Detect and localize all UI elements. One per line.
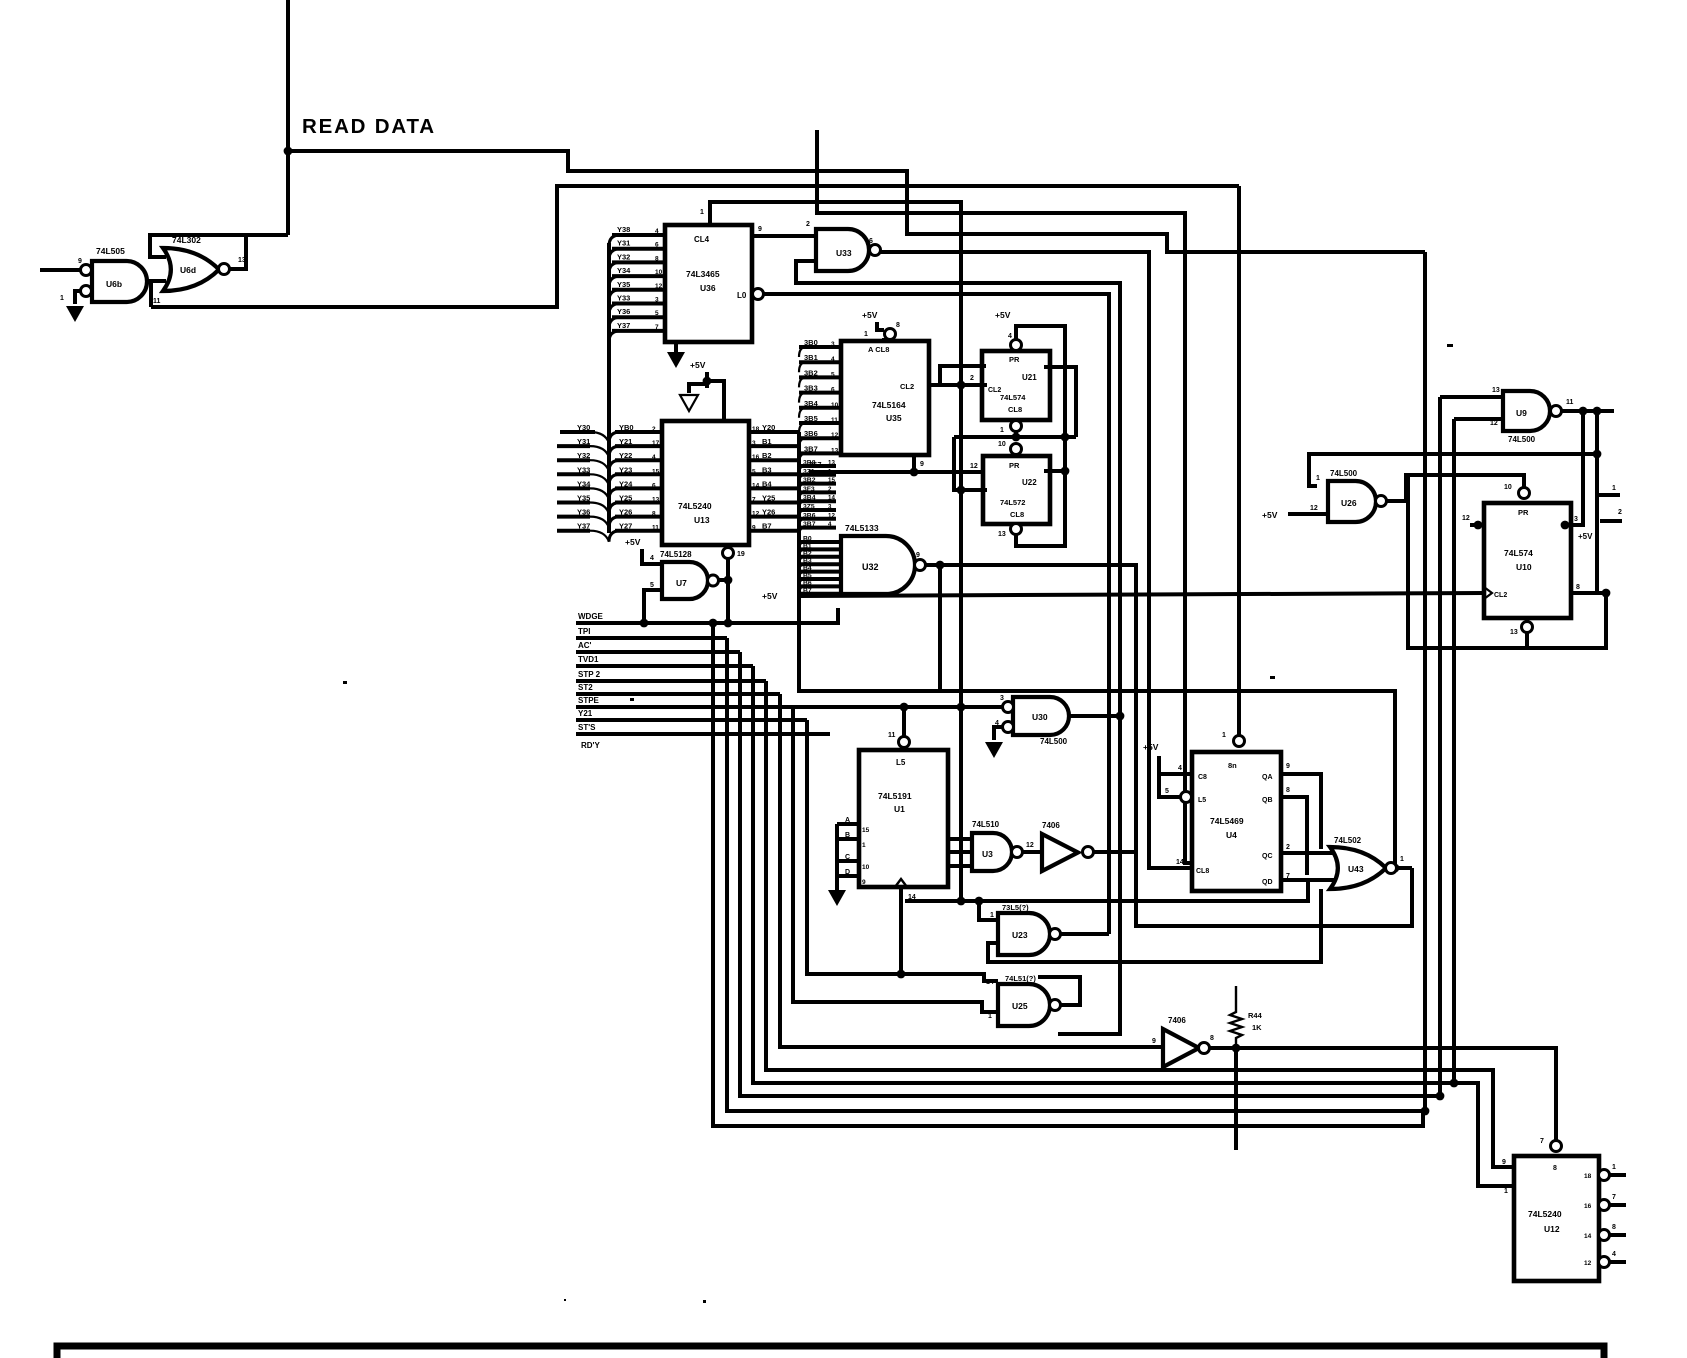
svg-text:18: 18 — [752, 426, 760, 433]
power +5V left of U4 — [1143, 742, 1159, 752]
svg-text:Y21: Y21 — [619, 437, 632, 446]
svg-text:3B6: 3B6 — [804, 429, 818, 438]
label U4 part — [1210, 816, 1244, 840]
open triangle symbol — [680, 384, 707, 411]
svg-text:+5V: +5V — [625, 537, 641, 547]
wire ST'S line — [576, 732, 830, 736]
svg-text:U35: U35 — [886, 413, 902, 423]
svg-text:1: 1 — [990, 912, 994, 919]
svg-text:CL2: CL2 — [988, 387, 1001, 394]
svg-text:B7: B7 — [762, 522, 772, 531]
svg-text:TPI: TPI — [578, 627, 590, 636]
label U36 part number — [686, 269, 720, 293]
wire U3 to 7406 — [1022, 842, 1042, 852]
svg-text:8: 8 — [655, 255, 659, 262]
svg-text:14: 14 — [752, 482, 760, 489]
svg-text:Y26: Y26 — [619, 508, 632, 517]
wire U25 top input stub — [984, 979, 998, 983]
svg-text:13: 13 — [238, 257, 246, 264]
label U35 CL2 pin — [900, 382, 914, 391]
svg-text:1: 1 — [1612, 485, 1616, 492]
svg-text:9: 9 — [752, 525, 756, 532]
svg-text:1: 1 — [60, 295, 64, 302]
wire U36 pin1 to long vertical — [700, 202, 961, 901]
svg-text:7: 7 — [1540, 1138, 1544, 1145]
svg-text:AC': AC' — [578, 641, 592, 650]
svg-text:12: 12 — [1462, 515, 1470, 522]
ic U36 ground pin — [667, 342, 685, 368]
label 74LS132 upper — [1002, 903, 1029, 912]
node READ DATA label — [302, 115, 436, 138]
svg-text:16: 16 — [752, 454, 760, 461]
svg-text:9: 9 — [1152, 1038, 1156, 1045]
svg-text:Y24: Y24 — [619, 479, 633, 488]
svg-text:CL4: CL4 — [694, 235, 710, 244]
svg-text:4: 4 — [828, 521, 832, 528]
label U12 left pins — [1502, 1159, 1508, 1195]
wire U23 output to vertical — [1060, 932, 1109, 936]
svg-text:8: 8 — [1210, 1035, 1214, 1042]
svg-text:1K: 1K — [1252, 1023, 1262, 1032]
svg-text:74L5128: 74L5128 — [660, 550, 692, 559]
wire U30 lower input to ground — [985, 727, 1003, 758]
svg-text:74L502: 74L502 — [1334, 836, 1362, 845]
svg-text:10: 10 — [998, 441, 1006, 448]
svg-text:73L5(?): 73L5(?) — [1002, 903, 1029, 912]
svg-text:5: 5 — [650, 582, 654, 589]
svg-text:Y32: Y32 — [617, 252, 630, 261]
wire U1 outputs to U3 — [948, 839, 972, 866]
svg-text:7406: 7406 — [1042, 821, 1060, 830]
wire output down to Q — [1565, 411, 1583, 525]
svg-text:6: 6 — [869, 238, 873, 245]
wire STP2 line — [576, 679, 766, 683]
svg-text:6: 6 — [655, 242, 659, 249]
wire U35 upper branch to U21 D — [940, 366, 986, 385]
svg-text:74L505: 74L505 — [96, 246, 125, 256]
svg-text:12: 12 — [1584, 1260, 1592, 1267]
svg-text:74L3465: 74L3465 — [686, 269, 720, 279]
ic U12 74LS240 box — [1514, 1156, 1599, 1281]
svg-text:7: 7 — [752, 497, 756, 504]
svg-text:10: 10 — [862, 864, 870, 871]
svg-text:13: 13 — [998, 531, 1006, 538]
wire READ DATA run to right with jogs — [288, 151, 1425, 252]
svg-text:3B5: 3B5 — [804, 414, 818, 423]
svg-text:B2: B2 — [762, 451, 772, 460]
svg-text:L5: L5 — [896, 758, 906, 767]
svg-text:15: 15 — [828, 477, 835, 484]
svg-text:PR: PR — [1518, 508, 1529, 517]
stub right edge pin1 — [1597, 485, 1620, 495]
label U4 CB pins — [1176, 774, 1209, 875]
svg-text:3B0: 3B0 — [804, 338, 818, 347]
wire U1 load pin from rail — [888, 707, 910, 748]
wire U6d lower input stub — [151, 281, 166, 307]
wire U35 clock output to U21 — [929, 381, 987, 390]
svg-text:D: D — [845, 869, 850, 876]
label U10 PR — [1518, 508, 1529, 517]
svg-text:QC: QC — [1262, 853, 1273, 860]
svg-text:1: 1 — [1504, 1188, 1508, 1195]
svg-text:4: 4 — [650, 555, 654, 562]
wire U10 Q stub — [1561, 516, 1578, 529]
svg-text:3: 3 — [831, 341, 835, 348]
wire U26 top input rail — [1309, 450, 1601, 486]
label 74LS00 U26 — [1330, 469, 1358, 478]
wire U1 borrow row — [905, 880, 1308, 905]
wire vertical x1425 down to bottom staircase — [1423, 252, 1427, 1111]
nor U6d — [163, 248, 230, 291]
wire staircase STPE column to latch — [793, 707, 998, 1012]
label U10 part — [1504, 548, 1533, 572]
nand U9 — [1503, 391, 1562, 431]
ic U13 74LS240 box — [662, 421, 749, 545]
svg-text:3B7: 3B7 — [804, 444, 818, 453]
svg-text:B3: B3 — [803, 558, 812, 565]
svg-text:ST2: ST2 — [578, 683, 593, 692]
svg-text:U25: U25 — [1012, 1001, 1028, 1011]
label U21 PR — [1009, 355, 1020, 364]
ground for U6b lower input — [66, 306, 84, 322]
svg-text:11: 11 — [652, 525, 659, 532]
svg-text:12: 12 — [828, 512, 835, 519]
wire U9 output node — [1561, 399, 1614, 415]
svg-text:8: 8 — [1553, 1165, 1557, 1172]
svg-text:+5V: +5V — [995, 310, 1011, 320]
svg-text:8: 8 — [1576, 584, 1580, 591]
speck — [703, 1300, 706, 1303]
svg-text:3B3: 3B3 — [804, 384, 818, 393]
wire staircase STP2 column — [766, 681, 1514, 1167]
wire U6b output to U6d input — [147, 279, 166, 283]
vertical x1454 down to staircase — [1452, 419, 1456, 1083]
svg-text:R44: R44 — [1248, 1011, 1263, 1020]
label 7406 first — [1042, 821, 1060, 830]
svg-text:15: 15 — [862, 827, 870, 834]
ic U36 74LS365 box — [665, 225, 752, 342]
ic U1 clock wedge — [895, 879, 916, 901]
svg-text:Y36: Y36 — [617, 307, 630, 316]
label U4 bn — [1228, 761, 1237, 770]
wire NOR U6d output feedback to top rail — [151, 186, 1239, 307]
svg-text:4: 4 — [655, 228, 659, 235]
svg-text:3: 3 — [1574, 516, 1578, 523]
svg-text:74L500: 74L500 — [1508, 435, 1536, 444]
svg-text:+5V: +5V — [862, 310, 878, 320]
wire U4 QA loop — [1281, 774, 1321, 849]
wire preset-clear tie loop — [1408, 475, 1606, 648]
svg-text:PR: PR — [1009, 461, 1020, 470]
ff U22 74LS74 box — [983, 441, 1050, 524]
svg-text:12: 12 — [1310, 505, 1318, 512]
label 74LS132 lower — [1005, 974, 1036, 983]
svg-text:U33: U33 — [836, 248, 852, 258]
svg-text:3: 3 — [655, 297, 659, 304]
bus fan into U32 inputs — [799, 536, 841, 601]
svg-text:CL2: CL2 — [900, 382, 914, 391]
wire U32 output branch down to counter rail — [936, 561, 945, 691]
svg-text:+5V: +5V — [1262, 510, 1278, 520]
power +5V into U26 — [1262, 505, 1328, 520]
svg-text:U22: U22 — [1022, 478, 1037, 487]
svg-text:6: 6 — [652, 482, 656, 489]
svg-text:U30: U30 — [1032, 712, 1048, 722]
svg-text:ST'S: ST'S — [578, 723, 596, 732]
svg-text:U36: U36 — [700, 283, 716, 293]
wire long rail to U10 clock — [800, 593, 1484, 596]
svg-text:C8: C8 — [1198, 774, 1207, 781]
wire U21 preset tie — [1016, 326, 1065, 546]
svg-text:WDGE: WDGE — [578, 612, 604, 621]
svg-text:1: 1 — [700, 209, 704, 216]
label U35 clr — [868, 345, 889, 354]
svg-text:3: 3 — [1000, 695, 1004, 702]
ff U10 74LS74 box — [1484, 484, 1571, 618]
bus fan into U13 left pins — [609, 423, 662, 542]
ic U1 data input stubs — [837, 817, 870, 890]
power +5V mid label — [762, 591, 778, 601]
wire R44 lower lead — [1234, 1048, 1238, 1150]
svg-text:9: 9 — [862, 879, 866, 886]
wire U10 Qbar to right rail — [1571, 584, 1610, 597]
svg-text:12: 12 — [655, 283, 663, 290]
ff U22 clear bubble — [998, 524, 1022, 539]
svg-text:12: 12 — [1026, 842, 1034, 849]
svg-text:B: B — [845, 832, 850, 839]
wire STPE line extended to U30 — [576, 703, 1008, 712]
wire U6d output up to node — [229, 235, 246, 269]
nand U23 — [998, 913, 1061, 955]
nand U32 74LS133 — [841, 536, 926, 594]
svg-text:15: 15 — [652, 468, 660, 475]
svg-text:9: 9 — [78, 258, 82, 265]
power +5V above U13 — [690, 360, 711, 388]
wire U1 clock down to Y21 staircase — [899, 887, 903, 974]
wire U4 QB down — [1281, 797, 1307, 875]
svg-text:10: 10 — [831, 402, 839, 409]
svg-text:B5: B5 — [803, 573, 812, 580]
label U32 output pin — [916, 552, 920, 559]
wire TPI line — [576, 636, 727, 640]
resistor R44 — [1230, 986, 1263, 1048]
svg-text:Y25: Y25 — [762, 494, 775, 503]
svg-text:10: 10 — [655, 269, 663, 276]
svg-text:5: 5 — [655, 310, 659, 317]
label U22 PR — [1009, 461, 1020, 470]
wire WDGE line — [576, 608, 838, 627]
wire +5V to load bubble — [1159, 774, 1192, 803]
svg-text:18: 18 — [1584, 1173, 1592, 1180]
svg-text:74L5191: 74L5191 — [878, 791, 912, 801]
wire U22 D input — [809, 463, 983, 472]
svg-text:14: 14 — [1176, 859, 1184, 866]
svg-text:74L5133: 74L5133 — [845, 523, 879, 533]
wire staircase WDGE column — [713, 623, 1423, 1126]
svg-text:5: 5 — [831, 371, 835, 378]
wire U35 bottom pin down — [910, 455, 924, 476]
svg-text:74L574: 74L574 — [1504, 548, 1533, 558]
wire U22 Q output — [1044, 467, 1069, 476]
svg-text:+5V: +5V — [1143, 742, 1159, 752]
wire U23 lower input bracket — [988, 889, 1321, 962]
wire U22 preset rail — [954, 433, 1076, 442]
ic U1 74LS191 box — [859, 750, 948, 887]
svg-text:7: 7 — [655, 324, 659, 331]
svg-text:B7: B7 — [803, 587, 812, 594]
svg-text:9: 9 — [758, 226, 762, 233]
bus fan into U36 left pins — [609, 225, 665, 342]
svg-text:B2: B2 — [803, 550, 812, 557]
wire U9 pin13 input — [1440, 387, 1503, 397]
wire U30 output to vertical — [1069, 712, 1124, 721]
label B07 — [809, 460, 822, 469]
wire U33 output run down to U4 CLR — [878, 252, 1192, 868]
svg-text:3Z5: 3Z5 — [803, 504, 815, 511]
svg-text:74L574: 74L574 — [1000, 393, 1026, 402]
label 74LS05 for U6b — [96, 246, 125, 256]
svg-text:2: 2 — [1286, 844, 1290, 851]
speck — [1447, 344, 1453, 347]
wire branch vertical x817 from top — [817, 130, 1192, 863]
svg-text:17: 17 — [652, 440, 660, 447]
label U6b refdes — [106, 279, 122, 289]
svg-text:Y25: Y25 — [619, 494, 632, 503]
svg-text:13: 13 — [1492, 387, 1500, 394]
wire top rail into U1 area — [799, 688, 1399, 872]
wire staircase ST2 column to inverter — [780, 694, 1163, 1047]
svg-text:Y31: Y31 — [617, 239, 630, 248]
far-left signal stubs into bus — [557, 423, 609, 542]
svg-text:U10: U10 — [1516, 562, 1532, 572]
label U6d refdes — [180, 265, 196, 275]
speck — [1270, 676, 1275, 679]
wire staircase AC column — [740, 652, 1444, 1100]
nand U26 — [1328, 481, 1387, 522]
nand U33 — [816, 229, 881, 271]
svg-text:74L5164: 74L5164 — [872, 400, 906, 410]
label U36 CL4 — [694, 235, 710, 244]
svg-text:L0: L0 — [737, 291, 747, 300]
label U4 output pins — [1262, 763, 1290, 886]
svg-text:2: 2 — [806, 221, 810, 228]
svg-text:+5V: +5V — [690, 360, 706, 370]
svg-text:12: 12 — [970, 463, 978, 470]
svg-text:Y37: Y37 — [617, 321, 630, 330]
signal name labels column — [578, 612, 604, 750]
power +5V right of U10 — [1578, 532, 1593, 541]
svg-text:U12: U12 — [1544, 1224, 1560, 1234]
svg-text:13: 13 — [831, 447, 839, 454]
wire U4 QD to NOR — [1281, 878, 1334, 882]
wire TVD1 line — [576, 664, 753, 668]
svg-text:STPE: STPE — [578, 696, 600, 705]
speck — [630, 698, 634, 701]
svg-text:U6d: U6d — [180, 265, 196, 275]
svg-text:PR: PR — [1009, 355, 1020, 364]
bus fan labels above U32 — [799, 460, 836, 536]
svg-text:367: 367 — [809, 460, 822, 469]
ff U10 D stub — [1462, 515, 1484, 529]
svg-text:74L510: 74L510 — [972, 820, 1000, 829]
label U1 L5 — [896, 758, 906, 767]
bus vertical left of U36/U13 — [607, 243, 611, 533]
svg-text:B3: B3 — [762, 465, 772, 474]
svg-text:19: 19 — [737, 551, 745, 558]
wire U7 output node — [718, 576, 732, 585]
svg-text:1: 1 — [1222, 732, 1226, 739]
svg-text:QA: QA — [1262, 774, 1273, 781]
svg-text:11: 11 — [153, 298, 161, 305]
svg-text:3B2: 3B2 — [804, 368, 818, 377]
wire 7406b output to U12 rail — [1209, 1044, 1556, 1141]
svg-text:+5V: +5V — [1578, 532, 1593, 541]
svg-text:A: A — [845, 817, 850, 824]
wire U4 QC to NOR — [1281, 851, 1334, 855]
nand U30 — [1003, 697, 1070, 735]
svg-text:U7: U7 — [676, 578, 687, 588]
wire rail down to U22 clock — [954, 437, 987, 494]
svg-text:9: 9 — [1286, 763, 1290, 770]
svg-text:4: 4 — [1178, 765, 1182, 772]
svg-text:1: 1 — [1316, 475, 1320, 482]
speck — [343, 681, 347, 684]
svg-text:8: 8 — [1612, 1224, 1616, 1231]
wire 7406a output right — [1093, 850, 1136, 854]
svg-text:12: 12 — [831, 432, 839, 439]
ff U10 clear bubble — [1510, 618, 1533, 648]
svg-text:YB0: YB0 — [619, 423, 634, 432]
svg-text:9: 9 — [916, 552, 920, 559]
label 74LS for U7 — [660, 550, 692, 559]
svg-text:1: 1 — [1612, 1164, 1616, 1171]
svg-text:74L51(?): 74L51(?) — [1005, 974, 1036, 983]
label U21 refdes — [1000, 373, 1037, 414]
svg-text:CL8: CL8 — [1196, 868, 1209, 875]
svg-text:READ DATA: READ DATA — [302, 115, 436, 138]
fan from U13 right pins into middle bus — [749, 423, 799, 541]
svg-text:U43: U43 — [1348, 864, 1364, 874]
svg-text:RD'Y: RD'Y — [581, 741, 600, 750]
svg-text:3B6: 3B6 — [803, 512, 816, 519]
svg-text:12: 12 — [1490, 420, 1498, 427]
svg-text:3B1: 3B1 — [804, 353, 818, 362]
svg-text:11: 11 — [888, 732, 896, 739]
svg-text:8: 8 — [896, 322, 900, 329]
svg-text:14: 14 — [1584, 1233, 1592, 1240]
svg-text:U3: U3 — [982, 849, 993, 859]
svg-text:Y20: Y20 — [762, 423, 775, 432]
nand U6b — [40, 258, 147, 304]
wire U4 clr feedback rectangle — [1134, 868, 1138, 926]
svg-text:3B4: 3B4 — [804, 399, 819, 408]
wire NOR rail into U4 top — [1222, 186, 1245, 747]
label 74LS10 U3 — [972, 820, 1000, 829]
svg-text:A CL8: A CL8 — [868, 345, 889, 354]
svg-text:1: 1 — [988, 1013, 992, 1020]
svg-text:U21: U21 — [1022, 373, 1037, 382]
label U13 part — [678, 501, 712, 525]
svg-text:U6b: U6b — [106, 279, 122, 289]
wire U9 pin12 input — [1454, 419, 1503, 427]
svg-text:STP 2: STP 2 — [578, 670, 601, 679]
ff U21 74LS74 box — [982, 333, 1050, 420]
ic U12 top bubble — [1540, 1138, 1562, 1172]
wire staircase TPI column — [727, 638, 1429, 1115]
svg-text:Y33: Y33 — [617, 294, 630, 303]
wire staircase Y21 column to latch — [807, 720, 998, 981]
svg-text:4: 4 — [1612, 1251, 1616, 1258]
